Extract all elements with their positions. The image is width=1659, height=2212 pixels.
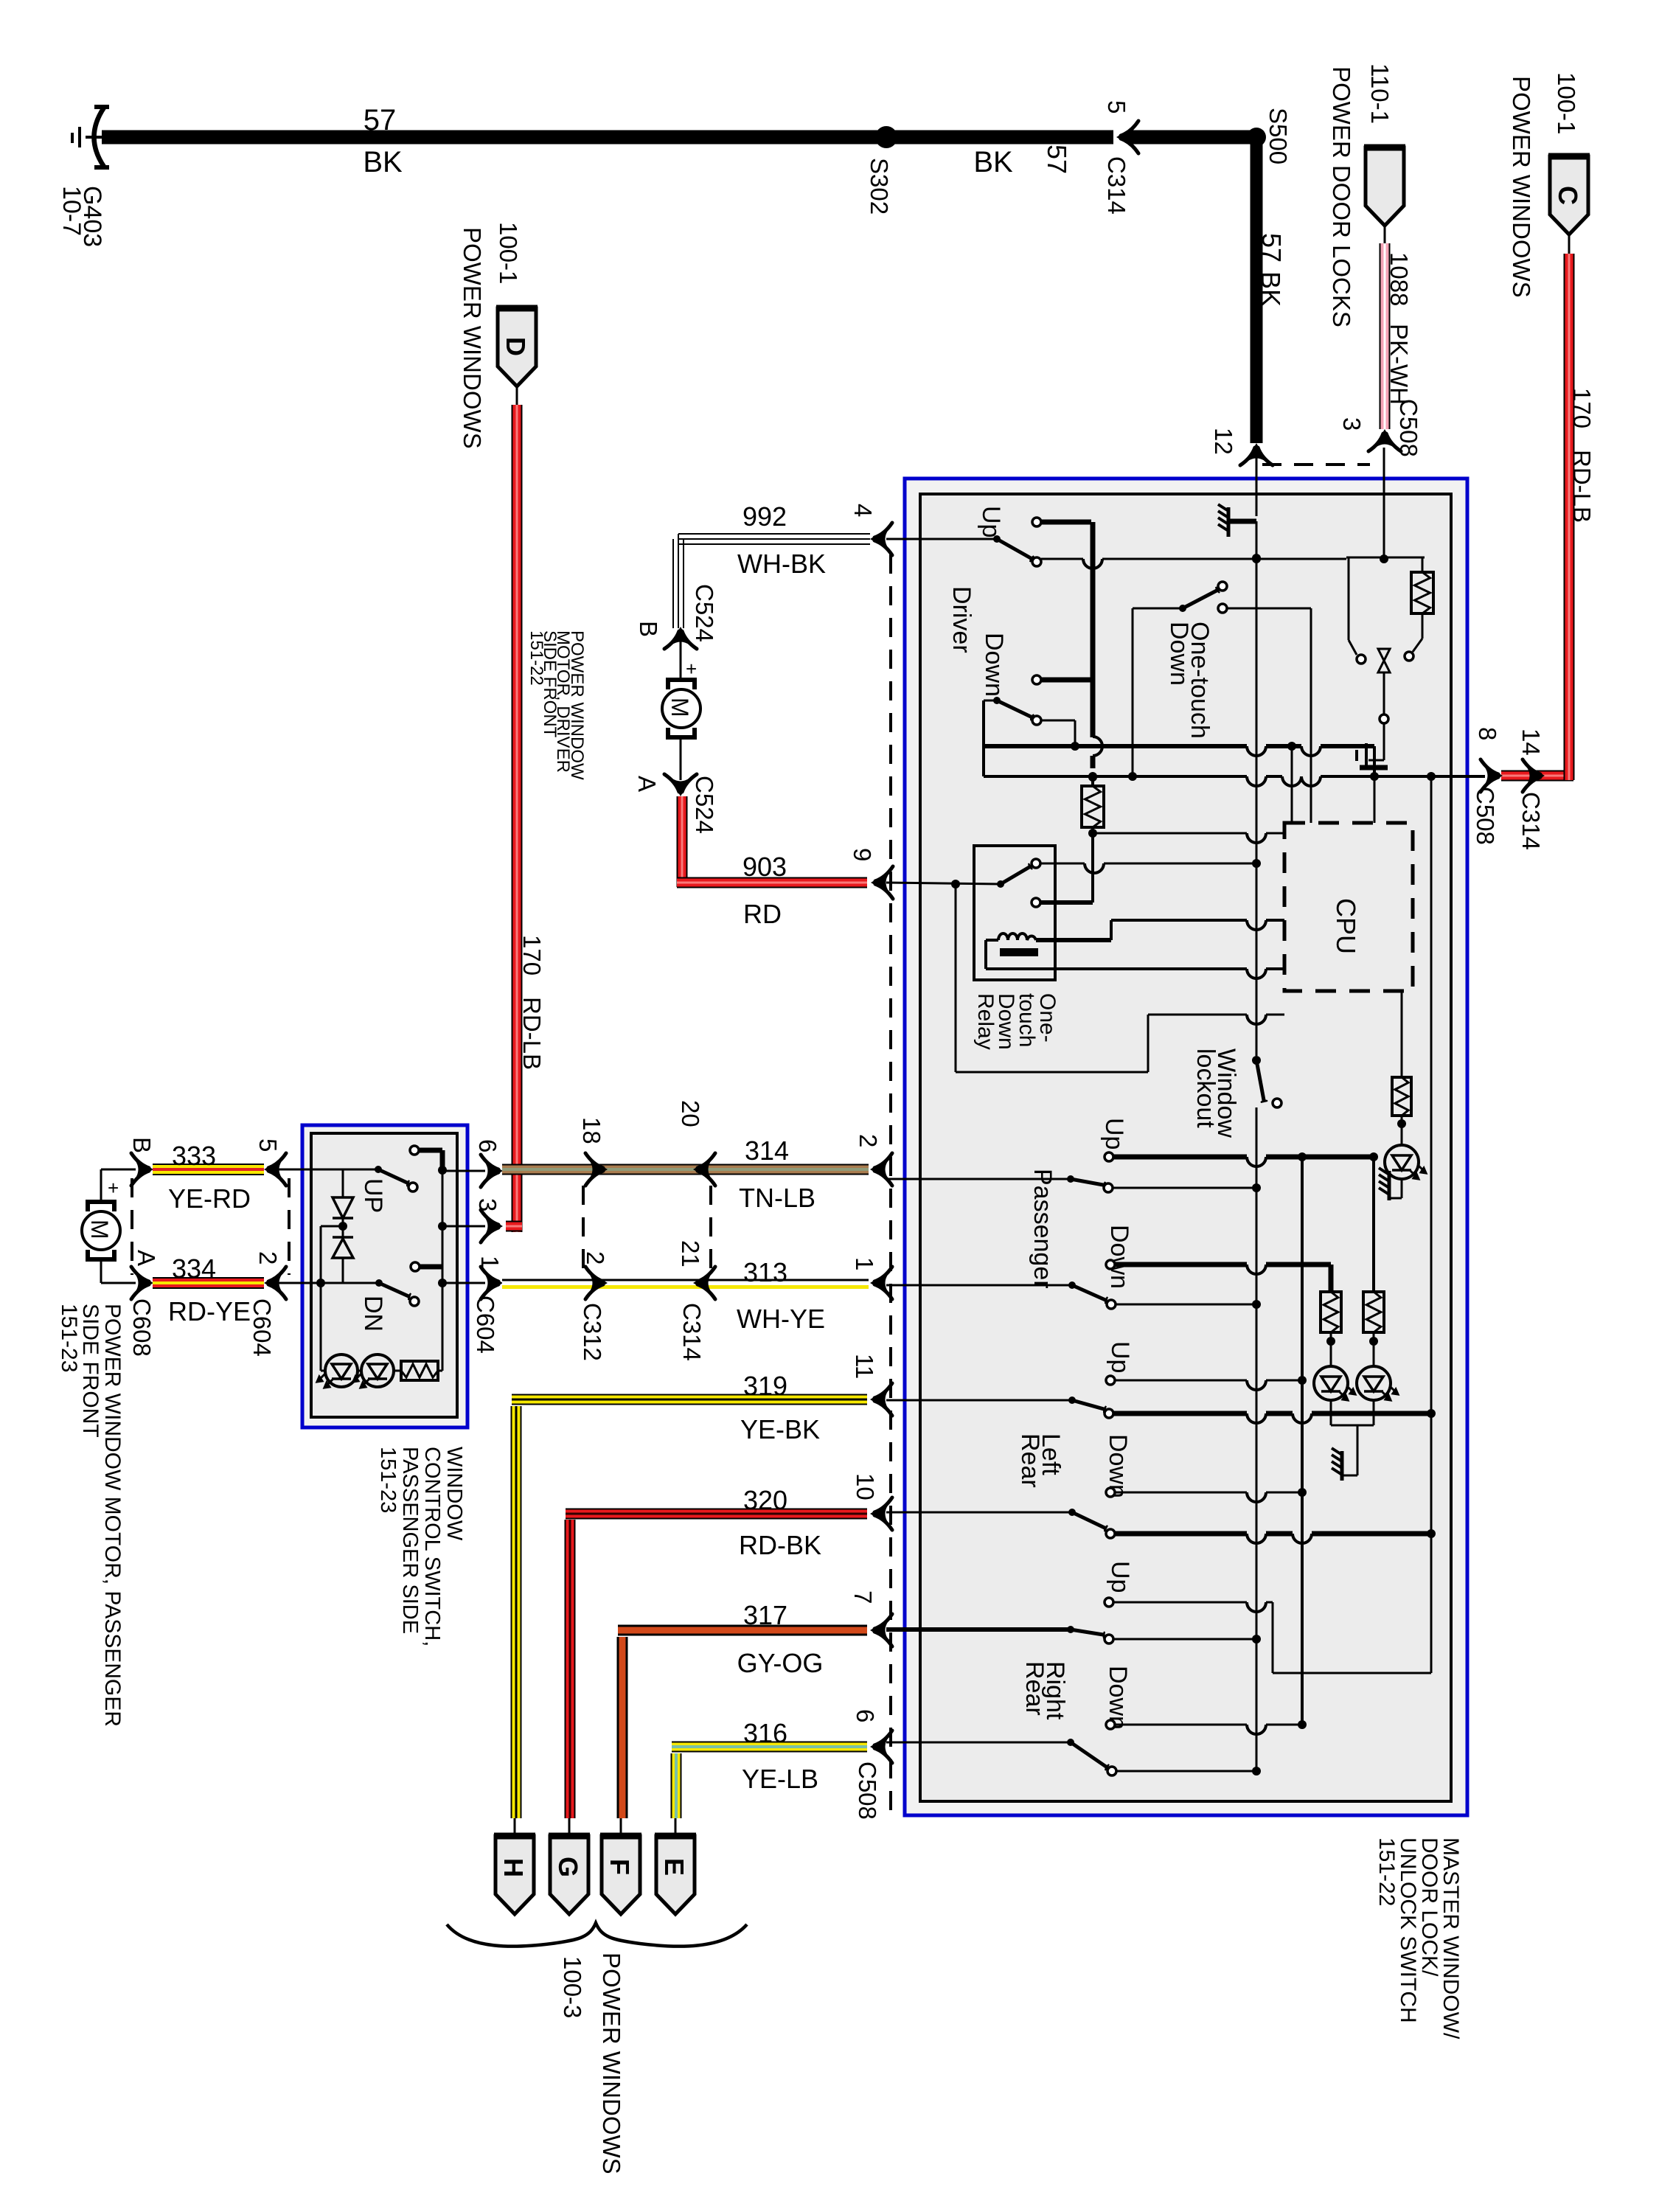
RR down moving line bbox=[1116, 1770, 1256, 1773]
wire 334 RD-YE bbox=[153, 1277, 264, 1289]
LED ground drop bbox=[1357, 1425, 1359, 1475]
relay low contact line bbox=[1040, 900, 1093, 905]
wire 316 YE-LB bbox=[671, 1753, 682, 1818]
chain dot right bbox=[1369, 1337, 1378, 1346]
svg-text:C524: C524 bbox=[691, 584, 718, 642]
passenger up blade bbox=[1071, 1179, 1103, 1185]
arrow 1 wcs bbox=[481, 1267, 501, 1299]
LED bottoms join bbox=[1330, 1400, 1332, 1425]
pin 10 line bbox=[886, 1512, 1072, 1514]
lead from pentagon bbox=[1384, 226, 1386, 243]
lead H bbox=[514, 1818, 516, 1837]
corner 1864 bbox=[1373, 746, 1376, 776]
svg-text:170: 170 bbox=[1568, 388, 1596, 428]
arrow 2 C312 bbox=[585, 1267, 606, 1299]
line y1130 to CPU bbox=[1093, 832, 1247, 835]
LR up moving line bbox=[1113, 1411, 1247, 1416]
pin 9 arrow bbox=[872, 866, 893, 899]
wcs pin1 line bbox=[442, 1282, 485, 1284]
one-touch down relay box bbox=[974, 846, 1055, 980]
svg-text:4: 4 bbox=[849, 504, 877, 517]
diode 2 bbox=[333, 1239, 353, 1258]
pin 14 arrow C314 bbox=[1523, 759, 1543, 792]
right chain vertical bbox=[1372, 1157, 1375, 1292]
svg-text:WH-BK: WH-BK bbox=[737, 549, 826, 579]
master switch blue box bbox=[905, 479, 1467, 1815]
chain dot left bbox=[1326, 1337, 1335, 1346]
one-touch pivot line bbox=[1133, 608, 1183, 610]
svg-text:CONTROL SWITCH,: CONTROL SWITCH, bbox=[420, 1447, 444, 1646]
driver down moving link bbox=[1041, 720, 1075, 722]
svg-text:A: A bbox=[133, 1250, 160, 1266]
lead F bbox=[620, 1818, 622, 1837]
svg-text:316: 316 bbox=[743, 1718, 787, 1748]
LED wcs 2 bbox=[361, 1354, 394, 1387]
svg-text:151-23: 151-23 bbox=[57, 1304, 81, 1372]
wcs UP line bbox=[279, 1169, 378, 1171]
vertical 1752 to CPU bbox=[1291, 746, 1293, 823]
LED pass up bbox=[1357, 1366, 1391, 1400]
brace 100-3 bbox=[447, 1923, 747, 1947]
svg-text:100-3: 100-3 bbox=[559, 1956, 586, 2018]
svg-text:1088: 1088 bbox=[1385, 252, 1413, 306]
svg-text:S500: S500 bbox=[1265, 108, 1292, 164]
pin 11 arrow bbox=[872, 1383, 892, 1416]
LED pass down bbox=[1314, 1366, 1348, 1400]
wire 170 RD-LB right vertical bbox=[1564, 254, 1575, 771]
pin9 loop path bbox=[955, 884, 957, 1072]
dashed C314 mid bbox=[709, 1186, 712, 1274]
svg-text:POWER WINDOWS: POWER WINDOWS bbox=[1508, 76, 1535, 298]
arrow 2 C604 bbox=[265, 1267, 286, 1299]
RR up blade bbox=[1071, 1630, 1103, 1635]
svg-text:1: 1 bbox=[476, 1256, 504, 1269]
svg-text:21: 21 bbox=[677, 1240, 704, 1267]
svg-text:M: M bbox=[86, 1220, 113, 1239]
svg-text:903: 903 bbox=[742, 852, 787, 882]
svg-text:G: G bbox=[553, 1857, 583, 1877]
svg-text:6: 6 bbox=[474, 1139, 501, 1152]
passenger moving line bbox=[1113, 1187, 1256, 1189]
svg-text:110-1: 110-1 bbox=[1366, 63, 1394, 124]
svg-text:Up: Up bbox=[977, 506, 1005, 538]
svg-text:C: C bbox=[1553, 186, 1583, 205]
pin 1 line bbox=[886, 1284, 1072, 1287]
svg-text:9: 9 bbox=[849, 848, 876, 861]
dashed C604 left bbox=[288, 1178, 291, 1275]
wcs resistor link bbox=[394, 1370, 401, 1372]
svg-text:POWER DOOR LOCKS: POWER DOOR LOCKS bbox=[1328, 66, 1355, 327]
LR down blade bbox=[1072, 1512, 1105, 1528]
svg-text:C524: C524 bbox=[691, 776, 718, 834]
CPU bottom chain bbox=[1401, 991, 1403, 1077]
svg-text:+: + bbox=[108, 1177, 119, 1199]
driver up blade bbox=[997, 539, 1031, 558]
ground hatch top bbox=[1227, 507, 1231, 537]
LR up blade bbox=[1072, 1400, 1104, 1409]
one-touch lower contact bbox=[1218, 604, 1227, 613]
svg-text:170: 170 bbox=[518, 935, 546, 975]
thick line y1012 bbox=[984, 744, 1247, 748]
motor driver lead bottom bbox=[680, 737, 682, 780]
svg-text:YE-BK: YE-BK bbox=[740, 1414, 820, 1444]
svg-text:313: 313 bbox=[743, 1257, 787, 1287]
svg-text:POWER WINDOW MOTOR, PASSENGER: POWER WINDOW MOTOR, PASSENGER bbox=[100, 1304, 125, 1727]
LED right bbox=[1385, 1145, 1419, 1179]
svg-text:333: 333 bbox=[172, 1141, 216, 1171]
connector pentagon F bbox=[602, 1836, 640, 1914]
connector C524 B arrow bbox=[664, 628, 697, 649]
pin 6 line bbox=[886, 1742, 1071, 1744]
left chain vertical bbox=[1329, 1265, 1334, 1292]
RR down blade bbox=[1071, 1742, 1106, 1767]
relay right resistor bbox=[1422, 557, 1424, 572]
wcs DN blade bbox=[379, 1283, 408, 1296]
wcs left bus bbox=[342, 1169, 344, 1197]
pin 9 line bbox=[886, 883, 1001, 884]
ground G403 symbol bbox=[94, 108, 105, 167]
svg-text:YE-RD: YE-RD bbox=[168, 1183, 251, 1214]
wire 170 RD-LB left bbox=[512, 405, 523, 1232]
diode 1 bbox=[333, 1197, 353, 1218]
cpu chain dot bbox=[1397, 1119, 1406, 1128]
passenger Up contact bbox=[1105, 1152, 1113, 1161]
svg-text:14: 14 bbox=[1517, 728, 1545, 756]
pin 1 arrow bbox=[872, 1267, 892, 1299]
svg-text:992: 992 bbox=[742, 501, 787, 532]
relay coil bbox=[998, 933, 1036, 940]
pin 2 arrow bbox=[872, 1153, 892, 1186]
svg-text:DN: DN bbox=[359, 1295, 387, 1332]
splice S302 bbox=[875, 126, 897, 148]
svg-text:57: 57 bbox=[364, 104, 397, 136]
svg-text:Down: Down bbox=[1105, 1225, 1133, 1289]
svg-text:C314: C314 bbox=[1517, 792, 1545, 850]
svg-text:7: 7 bbox=[849, 1590, 877, 1604]
svg-text:PK-WH: PK-WH bbox=[1385, 324, 1413, 405]
driver down pivot feed bbox=[984, 700, 997, 702]
connector C314 top bbox=[1113, 128, 1131, 146]
driver Up contact bbox=[1032, 518, 1041, 526]
wire 313 WH-YE bbox=[502, 1279, 869, 1281]
svg-text:3: 3 bbox=[474, 1198, 501, 1211]
relay out line y1314 bbox=[1054, 967, 1247, 970]
svg-text:Rear: Rear bbox=[1016, 1433, 1044, 1488]
one-touch blade bbox=[1183, 591, 1217, 608]
svg-text:RD: RD bbox=[743, 899, 782, 929]
svg-text:Relay: Relay bbox=[973, 993, 998, 1050]
svg-text:TN-LB: TN-LB bbox=[739, 1183, 815, 1213]
wcs bottom line bbox=[311, 1282, 379, 1284]
passenger Down contact bbox=[1106, 1260, 1115, 1269]
svg-text:RD-YE: RD-YE bbox=[168, 1296, 251, 1326]
resistor pass up bbox=[1363, 1292, 1384, 1332]
connector C608 A arrow bbox=[131, 1267, 152, 1299]
svg-text:151-23: 151-23 bbox=[376, 1447, 400, 1513]
window control switch panel bbox=[311, 1133, 457, 1417]
wire 319 YE-BK bbox=[511, 1406, 522, 1818]
svg-text:H: H bbox=[498, 1858, 529, 1877]
LED right ground bbox=[1401, 1179, 1403, 1198]
connector pentagon door locks bbox=[1366, 147, 1404, 226]
resistor pass down bbox=[1321, 1292, 1341, 1332]
driver up moving line y758 bbox=[1041, 558, 1083, 560]
motor passenger bbox=[82, 1211, 120, 1250]
svg-text:C314: C314 bbox=[678, 1303, 706, 1361]
svg-text:Rear: Rear bbox=[1020, 1661, 1048, 1716]
right bus 1941 bbox=[1430, 776, 1433, 1673]
up bus vertical bbox=[1301, 1157, 1304, 1725]
svg-text:BK: BK bbox=[1256, 271, 1286, 307]
svg-text:2: 2 bbox=[254, 1251, 282, 1265]
one-touch vertical V1 bbox=[1091, 522, 1096, 737]
svg-text:3: 3 bbox=[1338, 417, 1366, 431]
LR Up contact bbox=[1106, 1376, 1115, 1385]
vertical 1864 to CPU bbox=[1374, 776, 1376, 823]
dashed C608 bbox=[131, 1178, 133, 1275]
svg-text:D: D bbox=[501, 337, 531, 356]
svg-text:1: 1 bbox=[851, 1257, 878, 1270]
svg-text:BK: BK bbox=[973, 146, 1013, 178]
svg-text:POWER WINDOWS: POWER WINDOWS bbox=[598, 1952, 625, 2174]
svg-text:Up: Up bbox=[1106, 1561, 1134, 1593]
relay top bar bbox=[1346, 557, 1425, 559]
CPU dashed box bbox=[1284, 823, 1413, 991]
dashed C508 left boundary bbox=[889, 554, 892, 1814]
svg-text:100-1: 100-1 bbox=[495, 222, 522, 284]
motor driver lead top bbox=[680, 641, 682, 680]
svg-text:C608: C608 bbox=[128, 1298, 156, 1357]
pin 10 arrow bbox=[872, 1498, 892, 1530]
svg-text:20: 20 bbox=[677, 1100, 704, 1127]
lead from C bbox=[1568, 234, 1571, 254]
svg-text:BK: BK bbox=[363, 146, 403, 178]
svg-text:319: 319 bbox=[743, 1371, 787, 1401]
wire 57 BK vertical bbox=[1251, 137, 1263, 443]
passenger down moving line bbox=[1116, 1304, 1256, 1306]
wcs pin3 line bbox=[442, 1225, 485, 1228]
svg-text:RD-LB: RD-LB bbox=[1568, 450, 1596, 523]
svg-text:PASSENGER SIDE: PASSENGER SIDE bbox=[398, 1447, 422, 1634]
pin 2 line bbox=[886, 1178, 1071, 1180]
arrow 20 C314 bbox=[695, 1153, 715, 1186]
svg-text:10-7: 10-7 bbox=[58, 186, 86, 236]
relay blade bbox=[1001, 867, 1029, 884]
LR Down contact bbox=[1106, 1488, 1115, 1497]
wcs right bus bbox=[442, 1167, 444, 1371]
svg-text:10: 10 bbox=[852, 1473, 879, 1500]
lead G bbox=[568, 1818, 571, 1837]
diode 2 out bbox=[342, 1258, 344, 1283]
connector C524 A arrow bbox=[664, 774, 697, 795]
svg-text:B: B bbox=[635, 621, 662, 637]
svg-text:C508: C508 bbox=[1395, 399, 1422, 457]
svg-text:C508: C508 bbox=[1472, 787, 1499, 845]
connector pentagon C bbox=[1550, 156, 1588, 234]
RR Down contact bbox=[1106, 1720, 1115, 1729]
svg-text:Passenger: Passenger bbox=[1029, 1169, 1057, 1289]
arrow 5 C604 bbox=[265, 1153, 286, 1186]
svg-text:YE-LB: YE-LB bbox=[742, 1764, 818, 1794]
svg-text:5: 5 bbox=[1103, 100, 1130, 114]
wire 1088 PK-WH bbox=[1380, 243, 1391, 429]
one-touch loop vertical bbox=[1132, 608, 1134, 776]
dashed C508 top boundary bbox=[1262, 463, 1370, 466]
svg-text:A: A bbox=[633, 776, 661, 792]
relay coil left link bbox=[986, 939, 998, 942]
pin 7 line bbox=[886, 1627, 1071, 1632]
ground bus vertical bbox=[1256, 521, 1258, 1056]
svg-text:Down: Down bbox=[1165, 622, 1193, 686]
pin 4 line bbox=[886, 538, 997, 540]
driver Down contact bbox=[1032, 675, 1041, 684]
svg-text:WINDOW: WINDOW bbox=[442, 1447, 466, 1541]
window lockout switch bbox=[1256, 1060, 1264, 1100]
svg-text:UP: UP bbox=[359, 1178, 387, 1213]
svg-text:314: 314 bbox=[745, 1135, 789, 1166]
wire 57 BK thick black top bbox=[102, 131, 1251, 145]
svg-text:2: 2 bbox=[855, 1134, 882, 1147]
pin 11 line bbox=[886, 1399, 1072, 1402]
pin 6 arrow bbox=[872, 1731, 892, 1763]
pin 12 arrow C508 bbox=[1240, 445, 1273, 465]
connector pentagon G bbox=[550, 1836, 588, 1914]
connector C608 B arrow bbox=[131, 1153, 152, 1186]
wire 320 RD-BK bbox=[565, 1520, 576, 1818]
relay coil right link bbox=[1036, 938, 1111, 942]
svg-text:E: E bbox=[659, 1858, 689, 1876]
svg-text:S302: S302 bbox=[866, 158, 893, 215]
motor passenger leads bbox=[100, 1169, 102, 1202]
pin 8 arrow C508 bbox=[1481, 759, 1501, 792]
arrow 21 C314 bbox=[695, 1267, 715, 1299]
connector pentagon D bbox=[498, 308, 536, 386]
svg-text:GY-OG: GY-OG bbox=[737, 1648, 824, 1678]
RR Up contact bbox=[1105, 1598, 1113, 1607]
svg-text:F: F bbox=[605, 1859, 635, 1875]
svg-text:12: 12 bbox=[1210, 428, 1237, 455]
wire 903 RD bbox=[677, 796, 688, 887]
svg-text:CPU: CPU bbox=[1331, 898, 1361, 954]
relay left contact bbox=[1348, 557, 1350, 640]
svg-text:317: 317 bbox=[743, 1600, 787, 1630]
LED wcs 1 bbox=[325, 1354, 358, 1387]
V1 below resistor bbox=[1091, 827, 1094, 902]
svg-text:C312: C312 bbox=[579, 1303, 606, 1361]
svg-text:334: 334 bbox=[172, 1253, 216, 1284]
driver left loop vertical bbox=[982, 700, 985, 776]
RR up corner bbox=[1272, 1602, 1274, 1673]
pin8 inner feed bbox=[1430, 776, 1432, 776]
resistor V1 bbox=[1082, 786, 1104, 827]
svg-text:RD-LB: RD-LB bbox=[518, 997, 546, 1070]
svg-text:Down: Down bbox=[980, 633, 1008, 697]
svg-text:Up: Up bbox=[1106, 1341, 1134, 1373]
driver down blade bbox=[997, 700, 1031, 717]
wcs DN contact bbox=[411, 1262, 420, 1271]
relay plunger ground bbox=[1383, 724, 1385, 760]
motor driver bbox=[662, 689, 700, 728]
svg-text:+: + bbox=[686, 658, 697, 680]
splice S500 bbox=[1247, 128, 1266, 147]
svg-text:100-1: 100-1 bbox=[1553, 72, 1580, 134]
svg-text:11: 11 bbox=[851, 1354, 878, 1379]
lead from D bbox=[516, 386, 518, 405]
wcs UP blade bbox=[378, 1169, 407, 1183]
RR up moving line bbox=[1113, 1638, 1256, 1641]
LR down moving line bbox=[1115, 1531, 1247, 1537]
wcs pin6 line bbox=[442, 1170, 485, 1172]
relay plunger bbox=[1378, 649, 1390, 661]
arrow 3 wcs bbox=[481, 1210, 501, 1242]
pin 3 arrow C508 bbox=[1368, 431, 1401, 451]
wire 992 WH-BK bbox=[678, 538, 870, 540]
connector pentagon H bbox=[495, 1836, 534, 1914]
connector pentagon E bbox=[656, 1836, 695, 1914]
pin 4 arrow bbox=[872, 523, 892, 555]
svg-text:Driver: Driver bbox=[947, 586, 975, 653]
svg-text:M: M bbox=[667, 698, 693, 717]
svg-text:57: 57 bbox=[1042, 145, 1072, 174]
relay top contact line bbox=[1040, 863, 1085, 865]
svg-text:lockout: lockout bbox=[1192, 1048, 1220, 1128]
master switch inner gray panel bbox=[920, 494, 1451, 1801]
diode link bbox=[342, 1218, 344, 1237]
pin12 line into box bbox=[1256, 457, 1258, 516]
wire 170 into pin3 bbox=[506, 1221, 522, 1232]
wire 170 corner bbox=[1501, 771, 1573, 782]
svg-text:RD-BK: RD-BK bbox=[739, 1530, 821, 1560]
svg-text:POWER WINDOWS: POWER WINDOWS bbox=[459, 227, 486, 449]
svg-text:C604: C604 bbox=[472, 1295, 499, 1354]
svg-text:5: 5 bbox=[254, 1138, 282, 1152]
dashed C312 bbox=[582, 1186, 585, 1274]
svg-text:151-22: 151-22 bbox=[526, 630, 546, 686]
relay contact circles bbox=[1032, 859, 1040, 868]
svg-text:8: 8 bbox=[1474, 727, 1501, 740]
svg-text:C508: C508 bbox=[854, 1761, 881, 1820]
svg-text:6: 6 bbox=[852, 1709, 879, 1722]
window control switch blue box bbox=[302, 1125, 467, 1427]
resistor wcs bbox=[401, 1361, 438, 1380]
svg-text:C314: C314 bbox=[1103, 156, 1130, 215]
svg-text:320: 320 bbox=[743, 1485, 787, 1515]
svg-text:18: 18 bbox=[578, 1117, 605, 1144]
line y1053 to pin8 bbox=[984, 775, 1247, 778]
svg-text:B: B bbox=[128, 1137, 156, 1153]
svg-text:57: 57 bbox=[1256, 233, 1287, 262]
wcs diode branch bbox=[321, 1225, 343, 1228]
wcs led link bbox=[321, 1370, 325, 1372]
lead E bbox=[675, 1818, 677, 1837]
wcs UP contact bbox=[410, 1146, 419, 1155]
svg-text:WH-YE: WH-YE bbox=[737, 1304, 825, 1334]
svg-text:Up: Up bbox=[1100, 1118, 1128, 1150]
svg-text:2: 2 bbox=[582, 1251, 609, 1265]
wire 317 GY-OG bbox=[617, 1637, 628, 1818]
arrow 18 C312 bbox=[585, 1153, 606, 1186]
pin3 drop to relay bbox=[1383, 448, 1385, 557]
wire 333 YE-RD bbox=[153, 1164, 264, 1175]
wcs DN line bbox=[279, 1282, 379, 1284]
arrow 6 wcs bbox=[481, 1155, 501, 1187]
svg-text:151-22: 151-22 bbox=[1374, 1837, 1399, 1906]
svg-text:C604: C604 bbox=[248, 1298, 276, 1357]
resistor CPU bbox=[1392, 1077, 1411, 1116]
wire 314 TN-LB bbox=[502, 1164, 869, 1175]
pin 7 arrow bbox=[872, 1614, 892, 1646]
passenger down blade bbox=[1072, 1285, 1105, 1300]
